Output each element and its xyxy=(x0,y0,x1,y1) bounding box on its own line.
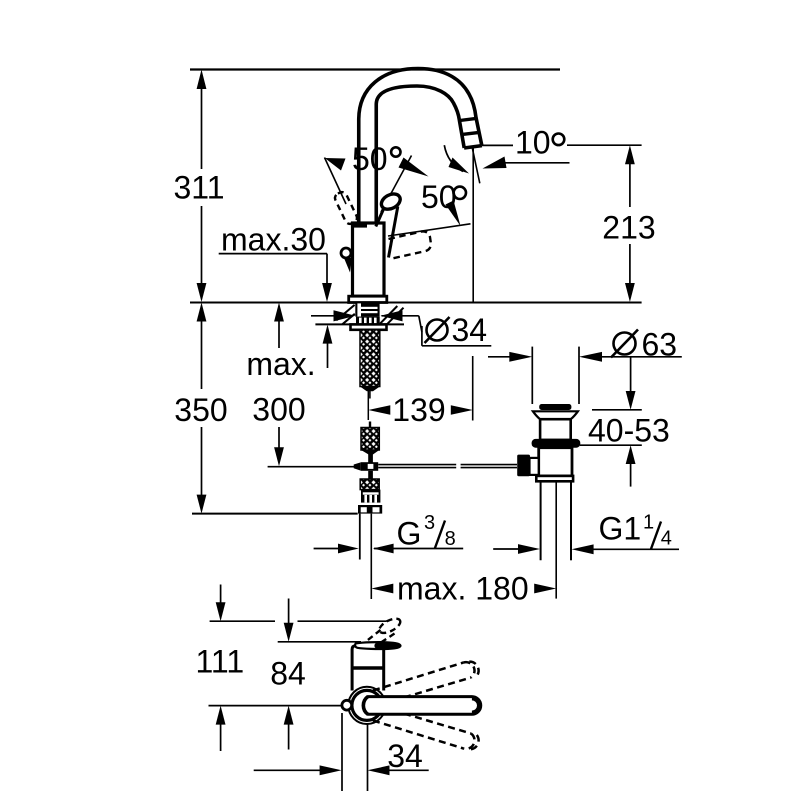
counter top line xyxy=(190,302,642,304)
lower reference line y=513.6 xyxy=(192,513,358,515)
111 arrows xyxy=(216,602,226,621)
end cap crescent xyxy=(472,698,479,713)
top ring xyxy=(539,404,571,410)
left cap arc thick xyxy=(363,697,368,715)
max.30 leader: underline + drop xyxy=(219,253,327,255)
svg-text:111: 111 xyxy=(195,644,244,680)
svg-text:350: 350 xyxy=(174,392,227,428)
body xyxy=(539,448,572,476)
hub circles xyxy=(348,687,385,724)
diameter symbols xyxy=(425,317,639,358)
svg-text:G1: G1 xyxy=(599,511,642,547)
tailpipe xyxy=(540,481,542,560)
svg-text:max.: max. xyxy=(246,346,315,382)
counter hatches xyxy=(336,305,403,324)
50deg#2 bottom arrow xyxy=(446,201,461,227)
111 dim xyxy=(220,585,222,604)
svg-text:34: 34 xyxy=(387,738,423,774)
second angle leg y=162.5 xyxy=(498,162,570,164)
hose segment S3 + neck xyxy=(360,471,379,490)
lever blade (top view) xyxy=(355,642,400,649)
degree circles xyxy=(391,134,564,200)
10deg right arrow xyxy=(483,157,507,169)
lower-right dashed-handle axis xyxy=(388,224,471,236)
svg-text:max.30: max.30 xyxy=(221,222,326,258)
thin angle leg lines xyxy=(325,156,471,237)
left dashed-handle axis xyxy=(325,158,347,205)
spout outer xyxy=(359,69,482,229)
knurled nut at tube xyxy=(358,490,382,514)
max.180 dim xyxy=(370,514,372,599)
body divider thick line xyxy=(352,666,384,670)
slanted outlet axis xyxy=(472,148,480,183)
max300 arrows xyxy=(274,303,284,322)
O34 leader xyxy=(311,315,334,317)
flange xyxy=(358,505,382,514)
vertical reference from spout tip x=473 xyxy=(472,147,474,302)
svg-text:300: 300 xyxy=(252,392,305,428)
max30 up arrow below counter xyxy=(323,325,333,344)
side knob xyxy=(341,248,351,258)
handle axis line y=705.6 xyxy=(209,705,342,707)
svg-text:8: 8 xyxy=(445,528,456,550)
counter bottom line xyxy=(315,323,404,325)
body (top view) xyxy=(352,646,384,691)
svg-text:max. 180: max. 180 xyxy=(397,571,529,607)
svg-text:3: 3 xyxy=(424,512,435,534)
dim max300 line xyxy=(278,320,280,348)
svg-text:1: 1 xyxy=(643,512,654,534)
base flange xyxy=(349,296,387,302)
10deg arc xyxy=(444,145,463,171)
dim 350 line xyxy=(201,320,203,389)
svg-text:34: 34 xyxy=(452,312,488,348)
top reference line xyxy=(190,68,560,70)
O63 dim xyxy=(488,356,510,358)
spout inner xyxy=(376,86,464,228)
knurled nut xyxy=(356,317,380,325)
O34 arrows xyxy=(334,310,356,321)
svg-text:213: 213 xyxy=(602,210,655,246)
dashed spout tip (top view) xyxy=(364,616,402,649)
G 3/8 label xyxy=(397,512,456,552)
mounting ring xyxy=(532,439,581,448)
dashed handle down (top view) xyxy=(373,707,479,749)
svg-text:10: 10 xyxy=(515,125,551,161)
G3/8 + G1 1/4 shared dim line xyxy=(314,548,339,550)
svg-text:139: 139 xyxy=(392,392,445,428)
34 dim xyxy=(254,769,323,771)
y=466.7 reference to fitting xyxy=(268,466,354,468)
arrowheads xyxy=(197,70,636,776)
svg-text:4: 4 xyxy=(661,528,672,550)
139 arrows xyxy=(368,405,390,415)
outlet cross lines xyxy=(460,118,478,120)
dim 213 line xyxy=(629,164,631,207)
G3/8 tube xyxy=(359,514,361,560)
solid handle axis xyxy=(381,156,412,213)
svg-text:84: 84 xyxy=(270,656,306,692)
max30 down arrow xyxy=(322,283,332,302)
max.30 lower arrow tail xyxy=(327,342,329,368)
dashed handle right xyxy=(389,231,431,258)
body top-left black mark xyxy=(353,223,367,228)
50deg#1 right arrow xyxy=(399,158,429,177)
svg-text:G: G xyxy=(397,516,422,552)
40-53 arrows xyxy=(626,391,636,410)
G1 1/4 arrows xyxy=(518,544,540,554)
hose segment S1 xyxy=(360,330,380,399)
inlet nut xyxy=(517,455,530,477)
dim 311 line xyxy=(201,88,203,169)
svg-text:63: 63 xyxy=(642,327,678,363)
O63 arrows xyxy=(509,352,532,362)
dashed handle up (top view) xyxy=(373,662,479,704)
84 arrows xyxy=(284,623,294,642)
bottom flange band xyxy=(536,476,573,481)
svg-text:40-53: 40-53 xyxy=(588,413,670,449)
hose segment S2 xyxy=(361,422,379,463)
213 arrows xyxy=(625,145,635,164)
40-53 dim xyxy=(630,357,632,392)
rod cross fitting xyxy=(354,462,379,471)
50deg#1 left arrow xyxy=(325,158,346,171)
handle lever xyxy=(376,191,403,258)
max180 arrows xyxy=(371,584,393,594)
knob (pull rod) top view xyxy=(342,700,352,710)
G1 1/4 label xyxy=(599,511,672,550)
139 left extension xyxy=(367,391,369,420)
washer xyxy=(351,324,387,329)
inlet stub xyxy=(530,458,539,475)
body xyxy=(353,223,385,296)
G3/8 arrows xyxy=(338,544,359,554)
neck xyxy=(540,419,571,440)
svg-text:311: 311 xyxy=(173,170,224,206)
handle bar (drawn over) xyxy=(363,697,480,715)
threaded shank through counter xyxy=(351,303,387,329)
svg-text:50: 50 xyxy=(421,179,457,215)
34 arrows xyxy=(320,765,342,775)
350 arrows xyxy=(197,303,207,322)
spout tip leader y=145.2 xyxy=(482,144,513,146)
10deg arc arrow xyxy=(449,158,470,174)
dashed handle upper-left xyxy=(333,190,358,225)
311 arrows xyxy=(197,70,207,90)
84 dim xyxy=(288,599,290,625)
flange lip xyxy=(533,411,578,419)
